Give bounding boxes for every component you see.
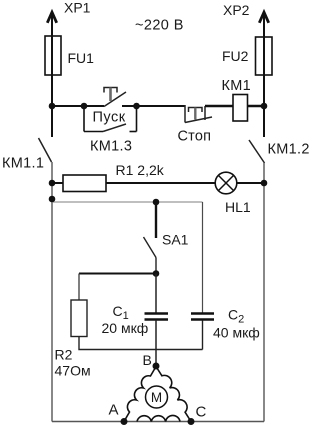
fuse FU1 <box>45 36 61 75</box>
node A <box>121 418 128 425</box>
wire right vertical lower <box>263 163 265 422</box>
plug XP2 <box>259 12 268 23</box>
wire coil to right bus <box>248 105 265 107</box>
svg-text:SA1: SA1 <box>162 232 189 248</box>
svg-text:R1 2,2k: R1 2,2k <box>116 162 165 178</box>
wire lamp to right bus <box>237 182 264 184</box>
wire C1 top lead <box>155 274 157 314</box>
resistor R1 <box>63 175 106 192</box>
junction dot SA1 bottom <box>153 270 160 277</box>
coil KM1 <box>233 95 248 122</box>
resistor R2 <box>71 300 87 337</box>
wire top bus middle <box>122 105 185 107</box>
svg-text:КМ1.1: КМ1.1 <box>2 156 44 172</box>
fuse FU2 <box>256 37 273 75</box>
wire R1 to lamp <box>106 182 215 184</box>
svg-text:С: С <box>196 404 207 421</box>
svg-text:R2: R2 <box>55 347 73 363</box>
svg-text:Стоп: Стоп <box>178 129 212 145</box>
plug XP1 <box>47 12 56 23</box>
svg-text:HL1: HL1 <box>225 199 251 215</box>
contact KM1.2 <box>249 140 265 163</box>
svg-text:В: В <box>143 352 152 368</box>
wire R2 bottom lead <box>79 337 203 350</box>
junction dot SA1 top <box>153 199 160 206</box>
switch SA1 <box>144 202 157 274</box>
motor winding A-C <box>137 415 180 421</box>
pushbutton SB Пуск <box>104 88 126 107</box>
wire C2 drop <box>202 202 204 313</box>
capacitor C2 <box>191 314 214 320</box>
junction dot top-right <box>261 103 268 110</box>
svg-text:~220 В: ~220 В <box>135 18 184 34</box>
junction dot R1 left <box>49 180 56 187</box>
junction dot Пуск left <box>81 103 88 110</box>
junction dot inner left <box>49 196 56 203</box>
contact KM1.3 <box>84 105 137 132</box>
wire bottom bus <box>52 421 264 423</box>
svg-text:FU1: FU1 <box>68 50 95 66</box>
wire Stop to coil <box>205 105 233 107</box>
motor winding B-C <box>156 367 191 422</box>
svg-text:Пуск: Пуск <box>93 110 126 126</box>
junction dot lamp right <box>261 180 268 187</box>
svg-text:КМ1.3: КМ1.3 <box>90 139 132 155</box>
motor winding B-A <box>124 367 156 422</box>
wire left vertical lower <box>51 162 53 422</box>
pushbutton SB Стоп <box>185 105 212 123</box>
svg-text:XP2: XP2 <box>223 2 250 18</box>
lamp HL1 <box>215 172 237 194</box>
svg-text:А: А <box>109 402 119 419</box>
wire node to R2 <box>79 273 156 275</box>
motor M circle <box>146 386 168 408</box>
wire top bus left <box>52 105 104 107</box>
svg-text:XP1: XP1 <box>64 0 91 16</box>
node B <box>153 363 160 370</box>
node C <box>188 418 195 425</box>
junction dot top-left <box>49 103 56 110</box>
svg-text:КМ1.2: КМ1.2 <box>268 142 310 158</box>
wire R1 branch left <box>52 182 63 184</box>
wire right vertical top <box>263 14 265 137</box>
svg-text:КМ1: КМ1 <box>222 78 252 94</box>
wire R2 top lead <box>78 274 80 301</box>
wire C1 to node B <box>155 320 157 366</box>
contact KM1.1 <box>39 138 52 162</box>
wire inner top horizontal <box>52 201 203 203</box>
junction dot Пуск right <box>133 103 140 110</box>
wire C2 bottom lead <box>202 321 204 350</box>
wire left vertical top <box>51 14 53 137</box>
svg-text:47Ом: 47Ом <box>55 363 91 379</box>
svg-text:М: М <box>151 390 162 405</box>
capacitor C1 <box>145 314 169 320</box>
svg-text:20 мкф: 20 мкф <box>102 320 149 336</box>
svg-text:FU2: FU2 <box>222 48 249 64</box>
svg-text:40 мкф: 40 мкф <box>213 325 260 341</box>
